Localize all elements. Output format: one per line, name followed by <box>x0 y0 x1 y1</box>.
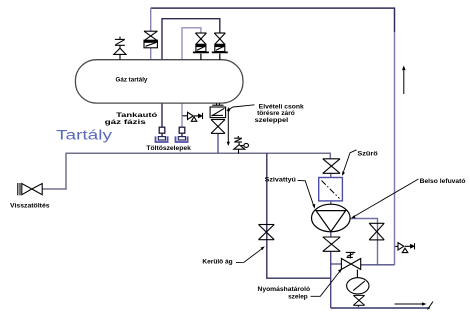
pipe dip tube x201 <box>197 60 201 80</box>
shutoff valve V4 x220 (tank top) <box>212 33 228 60</box>
fill valve F1 <box>159 127 165 136</box>
pipe bottom line <box>331 307 430 309</box>
gauge valve V12 <box>353 295 364 305</box>
pipe y265 link <box>361 264 395 266</box>
drain valve B2 <box>211 120 225 134</box>
fill valve F2 <box>179 127 185 136</box>
leader szűrő <box>342 150 357 176</box>
pipe top gas line <box>151 8 395 32</box>
check valve symbol K2 <box>395 243 414 253</box>
filter FL1 <box>319 178 343 201</box>
pipe bypass drop <box>267 153 331 278</box>
svg-text:Visszatöltés: Visszatöltés <box>10 203 50 210</box>
pipe drain stem <box>217 134 219 154</box>
pressure limiting valve V11 <box>341 252 360 269</box>
pipe valve-filter <box>330 173 332 177</box>
leader szivattyú <box>298 180 316 208</box>
pump outlet valve V9 <box>323 237 340 251</box>
svg-text:Tankautó: Tankautó <box>116 112 157 119</box>
svg-text:Belso lefuvató: Belso lefuvató <box>420 178 466 185</box>
bypass valve V7 (kerülő ág) <box>259 225 275 240</box>
svg-text:Szürö: Szürö <box>357 151 377 158</box>
pipe pump discharge <box>350 219 378 265</box>
pump P1 <box>312 204 351 232</box>
svg-text:Gáz tartály: Gáz tartály <box>116 76 148 83</box>
filter inlet valve V8 <box>323 159 340 174</box>
shutoff valve V3 x201 (tank top) <box>193 33 209 60</box>
tank T1 <box>75 60 243 103</box>
pipe pump down line <box>330 251 332 308</box>
pipe valve stem x150 <box>150 48 152 61</box>
svg-text:gáz fázis: gáz fázis <box>105 119 147 126</box>
svg-text:Tartály: Tartály <box>56 127 113 143</box>
pipe main line <box>43 153 331 189</box>
recovery valve V6 (left) <box>18 183 42 195</box>
svg-text:szelep: szelep <box>288 294 308 301</box>
leader kerülő ág <box>236 246 265 262</box>
relief valve V1 (tank top) <box>114 37 126 60</box>
flow arrow A3 <box>395 302 434 310</box>
svg-text:Töltöszelepek: Töltöszelepek <box>146 145 191 152</box>
pipe filter-pump <box>330 201 332 205</box>
svg-text:szeleppel: szeleppel <box>255 117 289 124</box>
leader elvételi <box>226 105 254 112</box>
drain nozzle box B1 <box>210 103 226 117</box>
pipe lever stub <box>331 263 342 265</box>
svg-text:Nyomáshatároló: Nyomáshatároló <box>258 286 311 293</box>
spring relief valve V5 (on main line) <box>234 136 249 154</box>
pipe y18 line <box>162 19 220 128</box>
down arrow A1 <box>227 108 230 147</box>
solenoid valve V2 x150 <box>144 31 157 48</box>
leader nyomáshatároló <box>311 268 343 296</box>
svg-text:Szivattyú: Szivattyú <box>265 177 296 184</box>
leader belső lefúvató <box>351 179 419 218</box>
pipe gauge drain <box>358 305 360 308</box>
pipe valve drop x150 <box>150 8 152 31</box>
svg-text:Kerülö ág: Kerülö ág <box>202 259 232 266</box>
check valve symbol K1 <box>183 112 203 121</box>
pipe stub x220 <box>219 60 221 62</box>
bypass branch valve V10 <box>369 223 384 240</box>
pipe pump-valve <box>330 232 332 237</box>
gauge G1 <box>347 270 369 294</box>
pipe y28 line <box>182 28 201 128</box>
up arrow A2 <box>402 66 406 95</box>
